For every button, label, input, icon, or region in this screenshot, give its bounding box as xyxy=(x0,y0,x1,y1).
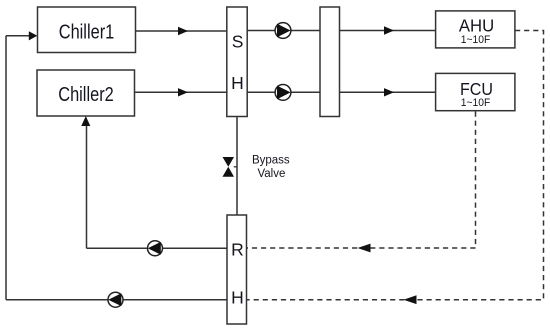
pump P4 (H return) xyxy=(108,292,123,307)
wire: Chiller1 outlet to supply header xyxy=(136,30,227,32)
svg-text:1~10F: 1~10F xyxy=(461,97,491,109)
wire: R-row solid return line xyxy=(87,247,228,249)
wire: supply row1 SH to header2 xyxy=(247,30,320,32)
arrow into Chiller1 xyxy=(29,31,38,40)
svg-text:1~10F: 1~10F xyxy=(461,34,491,46)
wire: supply row2 SH to header2 xyxy=(247,91,320,93)
svg-text:AHU: AHU xyxy=(459,16,494,36)
wire: supply row1 header2 to AHU xyxy=(340,30,436,32)
arrow on Chiller1 outlet xyxy=(178,27,188,35)
AHU box xyxy=(436,11,515,48)
wire: supply row2 header2 to FCU xyxy=(340,91,436,93)
arrow to FCU xyxy=(384,88,394,96)
wire: bypass pipe from SH bottom to RH top xyxy=(236,117,238,216)
wire: Chiller2 return riser xyxy=(86,124,88,248)
wire: H-row dashed return from AHU xyxy=(247,31,544,300)
wire: H-row solid return line xyxy=(6,299,227,301)
return header RH box xyxy=(227,215,247,324)
pump P1 (supply row1) xyxy=(275,23,291,39)
svg-text:Valve: Valve xyxy=(257,168,285,180)
svg-text:Chiller1: Chiller1 xyxy=(59,21,115,43)
svg-text:Chiller2: Chiller2 xyxy=(58,84,114,106)
secondary header box xyxy=(320,7,340,117)
svg-text:H: H xyxy=(231,73,244,93)
bypass valve xyxy=(223,157,235,167)
wire: R-row dashed return from FCU xyxy=(247,112,476,249)
pump P2 (supply row2) xyxy=(275,85,291,101)
arrow up into Chiller2 xyxy=(81,116,90,126)
chiller C1 box xyxy=(38,7,136,53)
svg-text:Bypass: Bypass xyxy=(252,155,290,167)
svg-text:S: S xyxy=(232,31,244,51)
bypass valve stub xyxy=(234,166,237,168)
svg-text:FCU: FCU xyxy=(460,79,493,99)
svg-text:R: R xyxy=(231,240,244,260)
arrow on Chiller2 outlet xyxy=(178,88,188,96)
wire: left outer riser (H return to Chiller1 feed) xyxy=(5,36,7,300)
wire: Chiller2 outlet to supply header xyxy=(135,91,227,93)
chiller C2 box xyxy=(37,70,135,116)
svg-text:H: H xyxy=(231,288,244,308)
wire: Chiller1 feed line xyxy=(6,35,30,37)
arrow on H dashed line xyxy=(404,295,417,304)
FCU box xyxy=(436,73,515,110)
pump P3 (R return) xyxy=(148,241,163,256)
supply header SH box xyxy=(227,7,247,117)
arrow to AHU xyxy=(384,26,394,34)
arrow on R dashed line xyxy=(358,244,371,253)
